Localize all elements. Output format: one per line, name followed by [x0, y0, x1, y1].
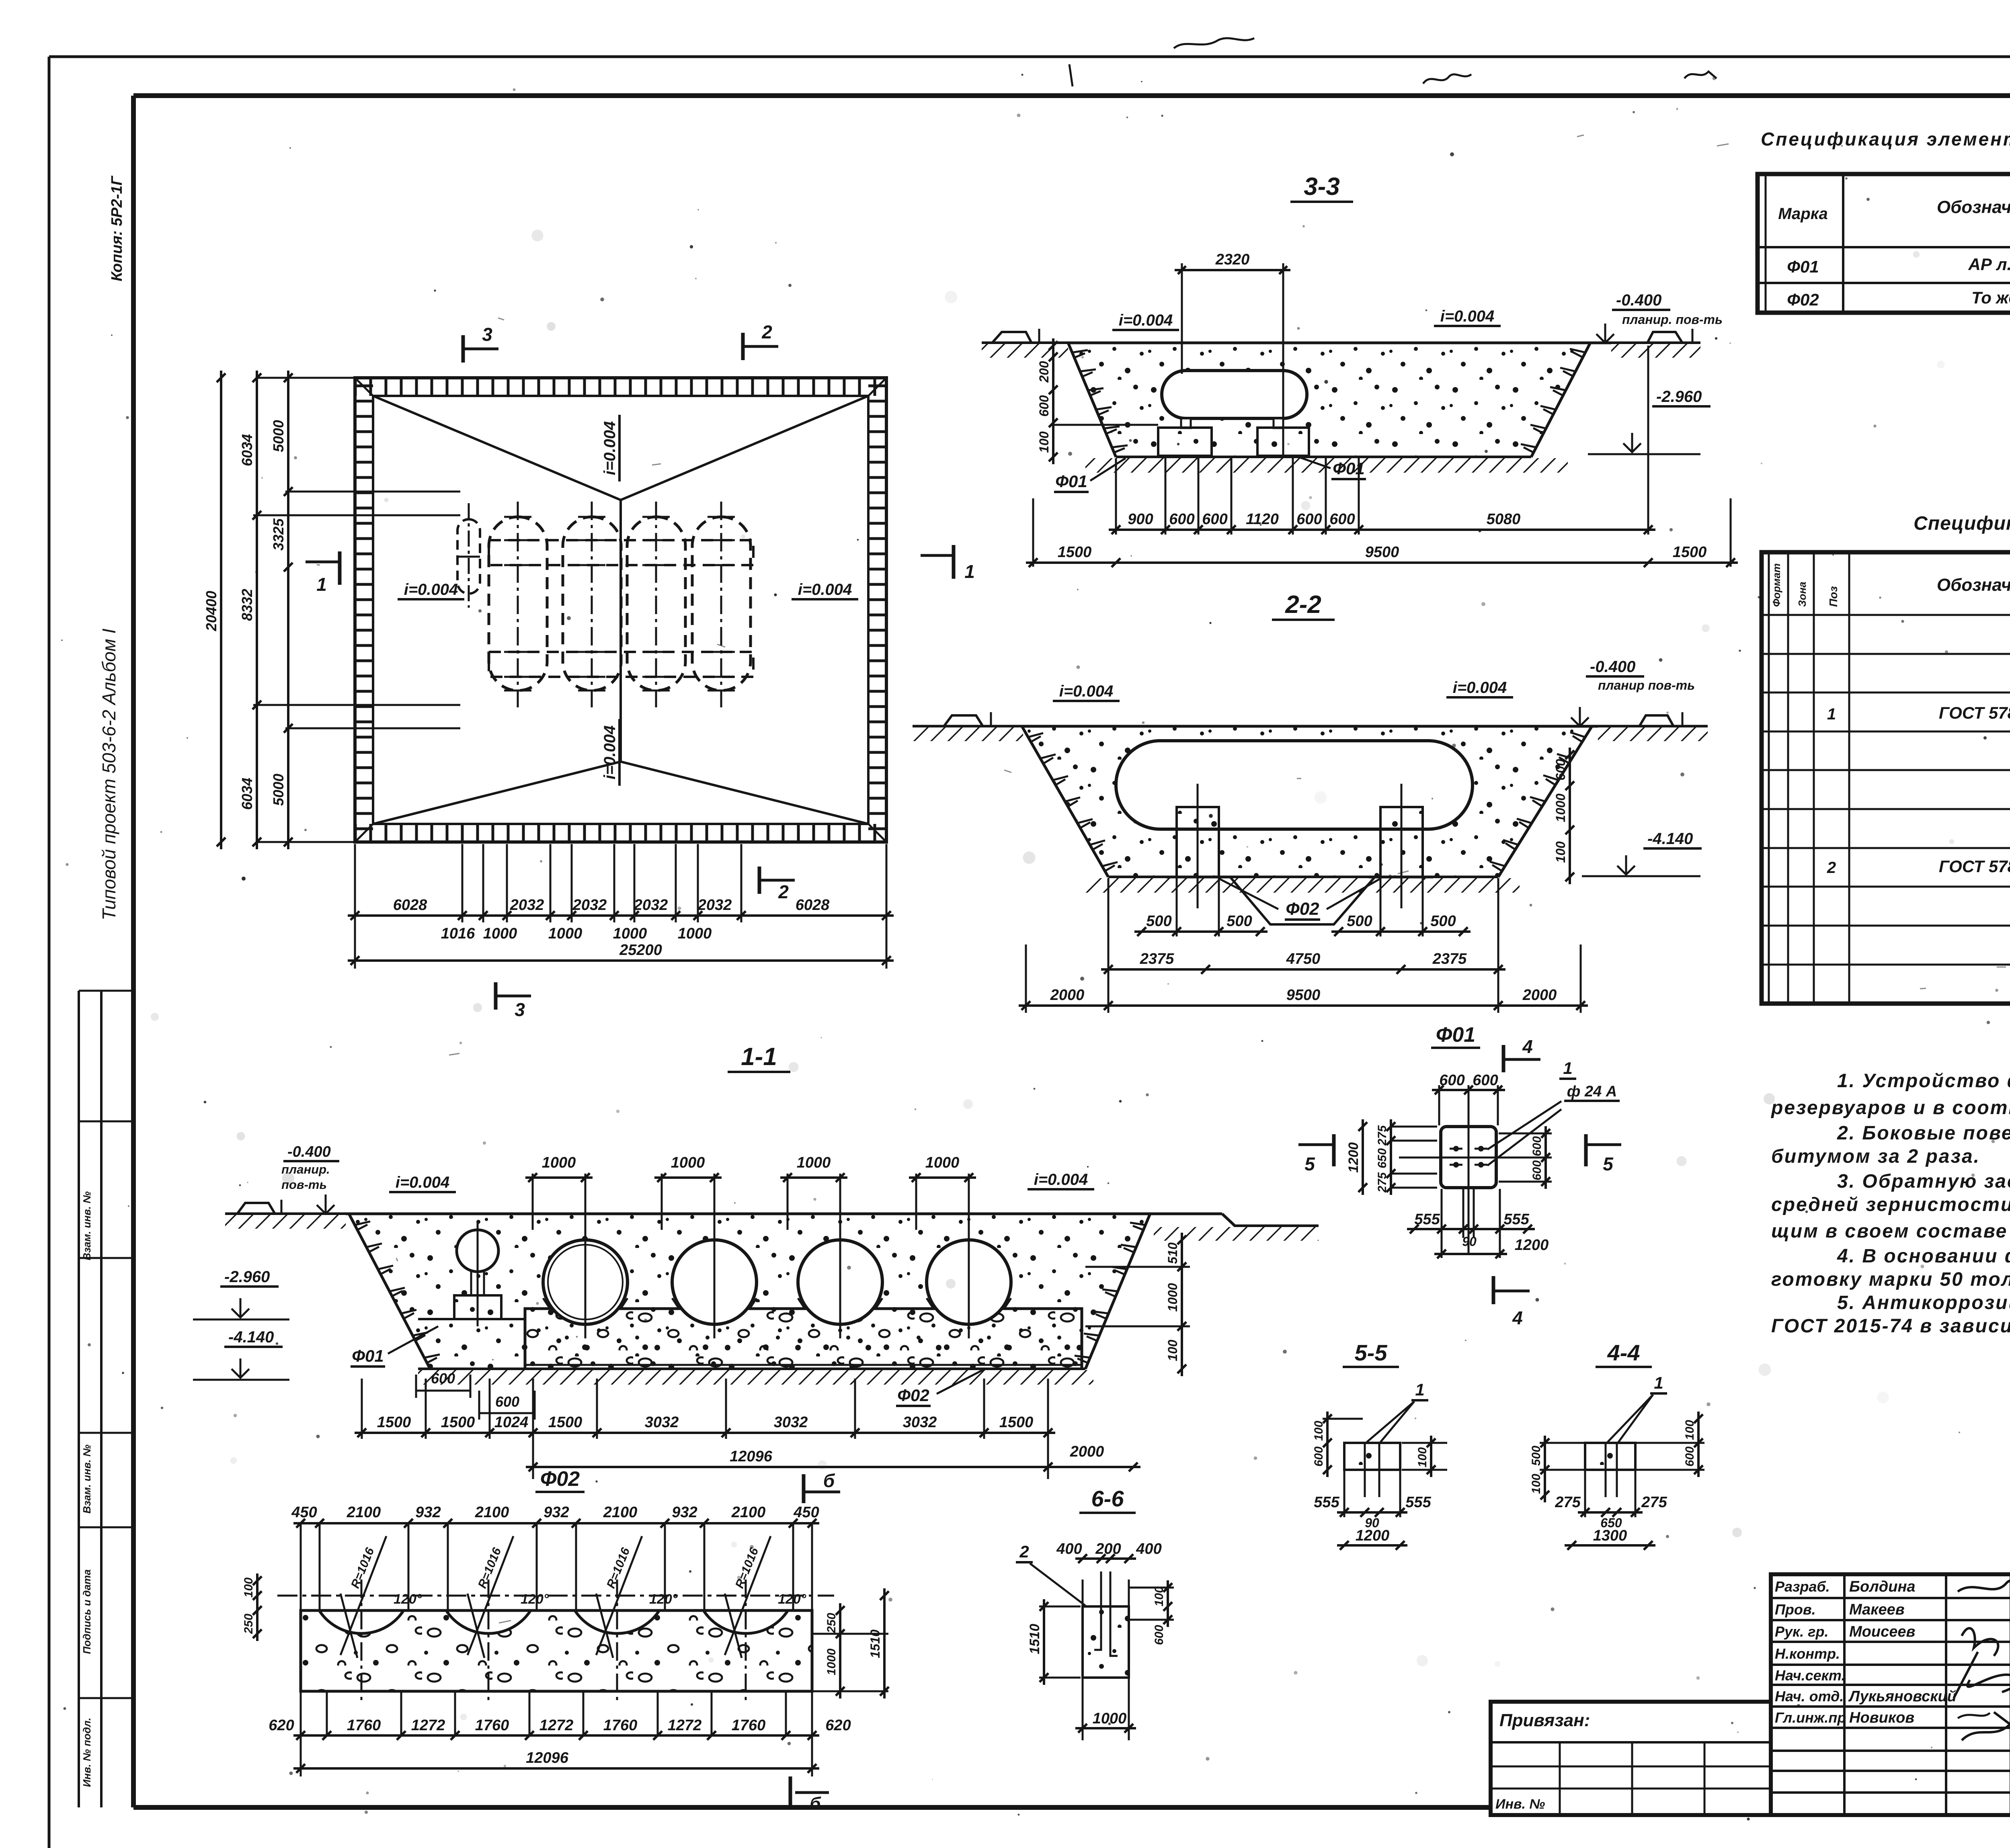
svg-text:1000: 1000	[797, 1154, 831, 1171]
svg-text:100: 100	[1165, 1340, 1180, 1361]
svg-text:2. Боковые поверхности фунда: 2. Боковые поверхности фундаментов обмаз…	[1837, 1123, 2010, 1144]
svg-text:планир пов-ть: планир пов-ть	[1598, 678, 1695, 692]
svg-text:Разраб.: Разраб.	[1775, 1578, 1830, 1595]
svg-text:4-4: 4-4	[1607, 1340, 1640, 1365]
svg-text:6-6: 6-6	[1091, 1486, 1124, 1511]
svg-text:Взам. инв. №: Взам. инв. №	[81, 1191, 93, 1260]
svg-text:12096: 12096	[526, 1750, 569, 1766]
svg-text:6034: 6034	[239, 434, 255, 466]
svg-text:1: 1	[1654, 1373, 1663, 1392]
svg-text:i=0.004: i=0.004	[404, 581, 458, 598]
svg-text:Инв. № подл.: Инв. № подл.	[81, 1718, 93, 1787]
svg-text:400: 400	[1136, 1541, 1161, 1557]
svg-text:600: 600	[1202, 511, 1227, 528]
svg-text:3-3: 3-3	[1304, 173, 1340, 201]
svg-text:1000: 1000	[542, 1154, 576, 1171]
svg-text:120°: 120°	[649, 1592, 678, 1607]
svg-text:650: 650	[1376, 1148, 1389, 1168]
svg-text:2032: 2032	[510, 897, 544, 914]
svg-text:100: 100	[1683, 1420, 1696, 1440]
svg-text:5000: 5000	[270, 774, 287, 806]
svg-text:250: 250	[242, 1614, 255, 1634]
svg-text:12096: 12096	[730, 1448, 773, 1465]
svg-text:90: 90	[1462, 1234, 1477, 1249]
svg-text:1000: 1000	[925, 1154, 960, 1171]
svg-text:-4.140: -4.140	[1647, 830, 1693, 848]
svg-text:-0.400: -0.400	[1590, 658, 1635, 676]
svg-text:i=0.004: i=0.004	[1119, 311, 1173, 329]
svg-text:275: 275	[1555, 1494, 1581, 1511]
svg-text:500: 500	[1227, 913, 1252, 930]
svg-text:i=0.004: i=0.004	[1440, 307, 1495, 325]
svg-text:1: 1	[1563, 1059, 1572, 1078]
svg-text:5080: 5080	[1487, 511, 1521, 528]
svg-text:Спецификация элементов к ма: Спецификация элементов к маркировочной с…	[1761, 129, 2010, 150]
svg-text:Взам. инв. №: Взам. инв. №	[81, 1444, 93, 1514]
svg-text:Ф01: Ф01	[1333, 459, 1365, 478]
svg-text:1760: 1760	[347, 1717, 381, 1734]
svg-text:1760: 1760	[475, 1717, 509, 1734]
svg-text:1500: 1500	[377, 1414, 411, 1431]
svg-text:щим в своем составе органи: щим в своем составе органических примесе…	[1771, 1221, 2010, 1242]
svg-text:5: 5	[1603, 1153, 1614, 1174]
svg-text:2032: 2032	[697, 897, 732, 914]
svg-text:1272: 1272	[539, 1717, 574, 1734]
svg-text:Формат: Формат	[1770, 563, 1782, 607]
svg-text:Н.контр.: Н.контр.	[1775, 1645, 1840, 1662]
svg-text:i=0.004: i=0.004	[601, 421, 619, 475]
svg-text:275: 275	[1641, 1494, 1667, 1511]
svg-text:1024: 1024	[494, 1414, 529, 1431]
svg-text:555: 555	[1503, 1211, 1529, 1228]
svg-text:600: 600	[1153, 1625, 1166, 1645]
svg-text:5: 5	[1304, 1153, 1315, 1174]
svg-text:1200: 1200	[1346, 1142, 1361, 1173]
svg-text:100: 100	[1416, 1447, 1429, 1467]
svg-text:ГОСТ 5781-75: ГОСТ 5781-75	[1939, 703, 2010, 722]
svg-text:1120: 1120	[1246, 511, 1279, 528]
svg-text:120°: 120°	[778, 1592, 806, 1607]
svg-text:Новиков: Новиков	[1849, 1709, 1914, 1726]
svg-text:Нач. отд.: Нач. отд.	[1775, 1688, 1844, 1705]
svg-text:б: б	[810, 1794, 821, 1813]
svg-text:2100: 2100	[731, 1504, 766, 1521]
svg-text:2100: 2100	[347, 1504, 381, 1521]
svg-text:Макеев: Макеев	[1849, 1601, 1905, 1618]
svg-text:резервуаров и в соответстви: резервуаров и в соответствии с ОСТ 26-02…	[1770, 1097, 2010, 1119]
svg-text:2000: 2000	[1050, 987, 1085, 1004]
svg-text:1272: 1272	[668, 1717, 702, 1734]
svg-text:500: 500	[1146, 913, 1171, 930]
svg-text:битумом за 2 раза.: битумом за 2 раза.	[1771, 1146, 1980, 1167]
svg-text:Ф01: Ф01	[1436, 1023, 1475, 1047]
svg-text:Зона: Зона	[1796, 582, 1808, 607]
svg-text:450: 450	[291, 1504, 317, 1521]
svg-text:932: 932	[672, 1504, 697, 1521]
svg-text:2320: 2320	[1215, 251, 1250, 268]
svg-text:1000: 1000	[483, 925, 517, 942]
svg-text:2375: 2375	[1432, 951, 1467, 967]
svg-text:500: 500	[1430, 913, 1456, 930]
svg-text:Ф02: Ф02	[897, 1386, 929, 1405]
svg-text:4. В основании фундаментов: 4. В основании фундаментов выполнить бет…	[1837, 1246, 2010, 1267]
svg-text:2032: 2032	[634, 897, 668, 914]
svg-text:2: 2	[761, 322, 772, 342]
svg-text:-0.400: -0.400	[1616, 291, 1661, 309]
svg-text:1500: 1500	[1058, 544, 1092, 561]
svg-text:500: 500	[1530, 1446, 1543, 1466]
svg-text:1000: 1000	[825, 1648, 838, 1675]
svg-text:Обозначение: Обозначение	[1937, 575, 2010, 595]
svg-text:Моисеев: Моисеев	[1849, 1623, 1915, 1640]
svg-text:5. Антикоррозийную защиту ре: 5. Антикоррозийную защиту резервуаров вы…	[1837, 1292, 2010, 1313]
svg-text:i=0.004: i=0.004	[1453, 679, 1507, 697]
svg-text:20400: 20400	[203, 591, 219, 631]
svg-text:2: 2	[778, 881, 789, 902]
svg-text:100: 100	[1312, 1421, 1325, 1441]
svg-text:1000: 1000	[1165, 1283, 1180, 1311]
svg-text:2000: 2000	[1522, 987, 1557, 1004]
svg-text:планир. пов-ть: планир. пов-ть	[1622, 312, 1723, 327]
svg-text:Ф02: Ф02	[1787, 290, 1819, 309]
svg-text:i=0.004: i=0.004	[396, 1174, 450, 1191]
svg-text:3325: 3325	[270, 518, 287, 551]
svg-text:555: 555	[1314, 1494, 1339, 1511]
svg-text:6034: 6034	[239, 778, 255, 810]
svg-text:Марка: Марка	[1778, 205, 1828, 223]
svg-text:620: 620	[269, 1717, 294, 1734]
svg-text:555: 555	[1405, 1494, 1431, 1511]
svg-text:Лукьяновский: Лукьяновский	[1848, 1688, 1957, 1705]
svg-text:600: 600	[1037, 395, 1051, 417]
svg-text:ГОСТ 2015-74 в зависимости: ГОСТ 2015-74 в зависимости от агрессии г…	[1771, 1315, 2010, 1337]
svg-text:9500: 9500	[1365, 544, 1399, 561]
svg-text:1000: 1000	[613, 925, 647, 942]
svg-text:б: б	[823, 1470, 835, 1491]
svg-text:25200: 25200	[619, 942, 662, 959]
svg-text:-2.960: -2.960	[1656, 388, 1702, 406]
svg-text:100: 100	[1530, 1474, 1543, 1494]
svg-text:Рук. гр.: Рук. гр.	[1775, 1623, 1829, 1640]
svg-text:i=0.004: i=0.004	[798, 581, 852, 598]
svg-text:600: 600	[1530, 1136, 1544, 1156]
svg-text:2: 2	[1827, 859, 1836, 877]
svg-text:600: 600	[1329, 511, 1355, 528]
svg-text:120°: 120°	[521, 1592, 549, 1607]
svg-text:600: 600	[1439, 1072, 1464, 1089]
svg-text:3: 3	[515, 999, 525, 1020]
svg-text:900: 900	[1128, 511, 1153, 528]
svg-text:555: 555	[1414, 1211, 1440, 1228]
svg-text:1200: 1200	[1356, 1527, 1390, 1544]
svg-text:1500: 1500	[999, 1414, 1034, 1431]
svg-text:1: 1	[1827, 705, 1836, 723]
svg-text:Типовой проект 503-6-2: Типовой проект 503-6-2 Альбом I	[98, 629, 119, 920]
svg-text:100: 100	[1553, 841, 1568, 863]
svg-text:2375: 2375	[1140, 951, 1174, 967]
svg-text:400: 400	[1056, 1541, 1082, 1557]
svg-text:1000: 1000	[678, 925, 712, 942]
svg-text:9500: 9500	[1286, 987, 1321, 1004]
svg-text:600: 600	[1296, 511, 1322, 528]
svg-text:600: 600	[1683, 1446, 1696, 1467]
svg-text:Привязан:: Привязан:	[1499, 1711, 1590, 1730]
svg-text:-2.960: -2.960	[224, 1268, 270, 1286]
svg-text:1000: 1000	[1553, 793, 1568, 822]
svg-text:275: 275	[1376, 1172, 1389, 1193]
svg-text:600: 600	[431, 1370, 455, 1387]
svg-text:готовку марки 50 толщиной 1: готовку марки 50 толщиной 100 мм.	[1771, 1269, 2010, 1290]
svg-text:-4.140: -4.140	[228, 1328, 274, 1346]
svg-text:600: 600	[1553, 759, 1568, 781]
svg-text:1300: 1300	[1593, 1527, 1627, 1544]
svg-text:Ф01: Ф01	[352, 1346, 384, 1365]
svg-text:100: 100	[1153, 1586, 1166, 1606]
svg-text:Гл.инж.пр: Гл.инж.пр	[1775, 1709, 1846, 1726]
svg-text:450: 450	[793, 1504, 819, 1521]
svg-text:2100: 2100	[603, 1504, 638, 1521]
svg-text:1760: 1760	[603, 1717, 638, 1734]
svg-text:Подпись и дата: Подпись и дата	[81, 1569, 93, 1654]
svg-text:i=0.004: i=0.004	[1059, 682, 1114, 700]
svg-text:1-1: 1-1	[741, 1043, 777, 1071]
svg-text:600: 600	[1312, 1446, 1325, 1467]
svg-text:Ф01: Ф01	[1787, 257, 1819, 276]
svg-text:1500: 1500	[1673, 544, 1707, 561]
svg-text:932: 932	[544, 1504, 569, 1521]
svg-text:1. Устройство фундаментов вы: 1. Устройство фундаментов выполнить посл…	[1837, 1070, 2010, 1092]
svg-text:Спецификация элементов монол: Спецификация элементов монолитной констр…	[1914, 513, 2010, 534]
svg-text:1272: 1272	[411, 1717, 445, 1734]
svg-text:Инв. №: Инв. №	[1495, 1797, 1545, 1812]
svg-text:200: 200	[1037, 361, 1051, 383]
svg-text:5000: 5000	[270, 420, 287, 452]
svg-text:Поз: Поз	[1827, 586, 1840, 607]
svg-text:2000: 2000	[1070, 1443, 1104, 1460]
svg-text:ф 24 А: ф 24 А	[1567, 1083, 1617, 1100]
svg-text:1500: 1500	[548, 1414, 582, 1431]
svg-text:1: 1	[316, 574, 327, 595]
svg-text:510: 510	[1165, 1242, 1180, 1264]
svg-text:8332: 8332	[239, 589, 255, 621]
svg-text:АР л.5: АР л.5	[1968, 255, 2010, 274]
svg-text:2032: 2032	[572, 897, 607, 914]
svg-text:1000: 1000	[671, 1154, 705, 1171]
svg-text:100: 100	[1037, 431, 1051, 453]
svg-text:Болдина: Болдина	[1849, 1578, 1916, 1595]
svg-text:Ф02: Ф02	[1286, 899, 1319, 919]
svg-text:600: 600	[495, 1393, 519, 1410]
svg-text:1: 1	[1415, 1380, 1424, 1399]
svg-text:1016: 1016	[441, 925, 475, 942]
svg-text:1510: 1510	[1027, 1624, 1042, 1654]
svg-text:3. Обратную засыпку емкостей: 3. Обратную засыпку емкостей вести песча…	[1837, 1171, 2010, 1192]
svg-text:250: 250	[825, 1613, 838, 1633]
svg-text:6028: 6028	[796, 897, 830, 914]
svg-text:1760: 1760	[732, 1717, 766, 1734]
svg-text:5-5: 5-5	[1355, 1340, 1388, 1365]
svg-text:3032: 3032	[774, 1414, 808, 1431]
svg-text:932: 932	[415, 1504, 441, 1521]
svg-text:1500: 1500	[441, 1414, 475, 1431]
svg-text:6028: 6028	[393, 897, 427, 914]
svg-text:275: 275	[1376, 1125, 1389, 1146]
svg-text:То же: То же	[1971, 288, 2010, 307]
svg-text:Пров.: Пров.	[1775, 1601, 1816, 1618]
svg-text:ГОСТ 5781-75: ГОСТ 5781-75	[1939, 857, 2010, 876]
svg-text:Обозначение: Обозначение	[1937, 197, 2010, 217]
svg-text:100: 100	[242, 1578, 255, 1598]
svg-text:600: 600	[1169, 511, 1194, 528]
svg-text:3032: 3032	[903, 1414, 937, 1431]
svg-text:600: 600	[1473, 1072, 1498, 1089]
svg-text:Ф02: Ф02	[540, 1467, 580, 1491]
svg-text:4: 4	[1512, 1307, 1523, 1328]
svg-text:Копия: 5Р2-1Г: Копия: 5Р2-1Г	[109, 175, 125, 281]
svg-text:2-2: 2-2	[1285, 591, 1321, 619]
svg-text:200: 200	[1095, 1541, 1121, 1557]
svg-text:620: 620	[825, 1717, 851, 1734]
svg-text:Ф01: Ф01	[1055, 472, 1087, 491]
svg-text:Нач.сект.: Нач.сект.	[1775, 1667, 1845, 1684]
svg-text:i=0.004: i=0.004	[1034, 1171, 1088, 1188]
svg-text:2: 2	[1019, 1542, 1029, 1561]
svg-text:1200: 1200	[1515, 1237, 1549, 1254]
svg-text:i=0.004: i=0.004	[601, 725, 619, 780]
svg-text:1000: 1000	[548, 925, 582, 942]
svg-text:4: 4	[1522, 1036, 1533, 1057]
svg-text:4750: 4750	[1286, 951, 1321, 967]
svg-text:2100: 2100	[475, 1504, 509, 1521]
svg-text:3032: 3032	[645, 1414, 679, 1431]
svg-text:1: 1	[964, 561, 975, 582]
svg-text:600: 600	[1530, 1160, 1544, 1180]
svg-text:3: 3	[482, 324, 492, 345]
svg-text:-0.400: -0.400	[287, 1143, 331, 1160]
svg-text:500: 500	[1347, 913, 1372, 930]
